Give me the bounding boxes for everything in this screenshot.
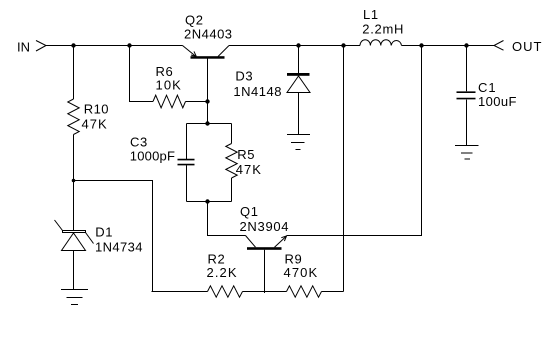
svg-text:100uF: 100uF — [478, 94, 517, 109]
svg-text:D1: D1 — [95, 225, 113, 240]
svg-text:2N3904: 2N3904 — [240, 219, 290, 234]
svg-text:L1: L1 — [363, 7, 379, 22]
svg-text:1000pF: 1000pF — [130, 149, 175, 164]
svg-text:IN: IN — [17, 40, 30, 55]
svg-text:OUT: OUT — [512, 39, 542, 54]
svg-text:1N4148: 1N4148 — [233, 84, 282, 99]
svg-text:Q1: Q1 — [240, 204, 259, 219]
svg-text:47K: 47K — [82, 117, 108, 132]
svg-text:C3: C3 — [130, 135, 148, 150]
svg-text:D3: D3 — [235, 69, 253, 84]
svg-text:10K: 10K — [156, 78, 182, 93]
svg-text:R5: R5 — [237, 147, 255, 162]
svg-text:Q2: Q2 — [185, 13, 204, 28]
svg-text:2.2mH: 2.2mH — [362, 21, 404, 36]
svg-text:47K: 47K — [236, 162, 262, 177]
svg-text:1N4734: 1N4734 — [95, 239, 143, 254]
svg-text:2.2K: 2.2K — [207, 265, 238, 280]
svg-text:470K: 470K — [284, 265, 319, 280]
svg-text:C1: C1 — [478, 80, 497, 95]
svg-text:2N4403: 2N4403 — [184, 27, 233, 42]
svg-text:R10: R10 — [84, 102, 109, 117]
